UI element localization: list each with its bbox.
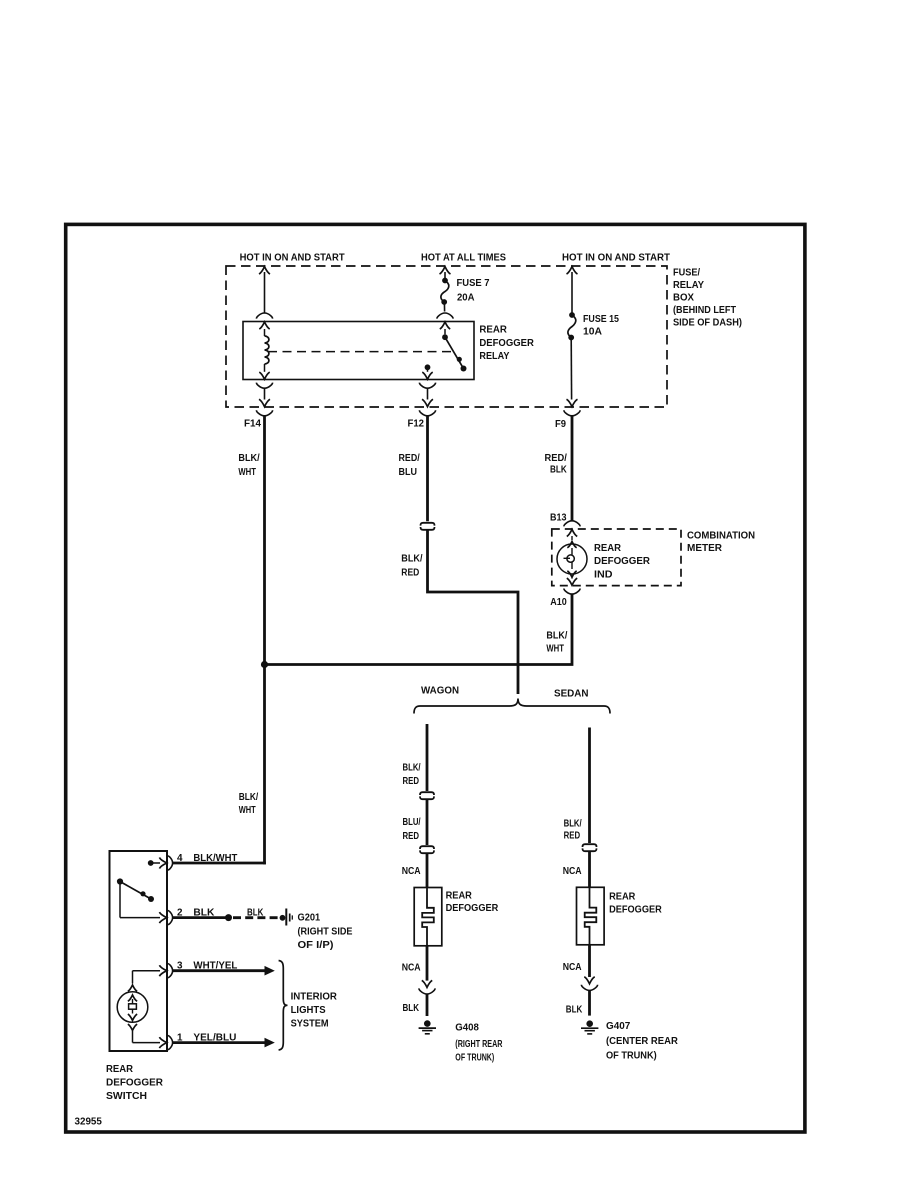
label G408 (RIGHT REAR OF TRUNK)	[455, 1023, 503, 1064]
relay control dashed link	[268, 351, 452, 353]
svg-text:BLK/: BLK/	[546, 630, 567, 641]
wire WHT/YEL pin 3	[173, 966, 275, 976]
svg-text:OF I/P): OF I/P)	[298, 940, 334, 951]
svg-text:(RIGHT REAR: (RIGHT REAR	[455, 1039, 503, 1050]
ground G407	[586, 1020, 593, 1027]
svg-text:INTERIOR: INTERIOR	[291, 991, 338, 1002]
svg-text:(RIGHT SIDE: (RIGHT SIDE	[298, 926, 353, 937]
wire: relay coil pin to F14	[259, 388, 270, 407]
ground connection G201	[280, 909, 293, 926]
connector bowl below relay output pin	[419, 383, 435, 389]
svg-text:20A: 20A	[457, 293, 475, 304]
switch pin 4	[151, 856, 173, 870]
svg-text:SIDE OF DASH): SIDE OF DASH)	[673, 317, 742, 328]
dashed wire BLK to G201	[233, 916, 279, 919]
svg-text:REAR: REAR	[609, 891, 636, 902]
switch contact arm	[117, 860, 154, 918]
wire wagon BLK/RED	[426, 724, 429, 791]
svg-text:REAR: REAR	[446, 890, 473, 901]
svg-text:COMBINATION: COMBINATION	[687, 530, 755, 541]
connector bowl above relay coil pin	[256, 313, 272, 319]
label FUSE 15 10A	[583, 314, 619, 338]
svg-text:BLK/: BLK/	[564, 819, 582, 830]
svg-text:WHT: WHT	[546, 644, 564, 655]
connector F14	[256, 410, 272, 416]
wire RED/BLK from F9	[571, 416, 574, 521]
svg-text:RED: RED	[564, 830, 581, 841]
relay switch contact	[440, 322, 467, 372]
inline connector C4 (sedan)	[583, 844, 597, 847]
label RED/BLU	[399, 453, 420, 478]
label BLK/RED (feed to brace)	[401, 553, 422, 578]
svg-text:F12: F12	[408, 419, 425, 430]
svg-text:BLK/: BLK/	[238, 453, 259, 464]
svg-text:NCA: NCA	[402, 963, 421, 974]
svg-text:BLK/: BLK/	[403, 763, 421, 774]
svg-text:FUSE/: FUSE/	[673, 268, 700, 279]
label REAR DEFOGGER (wagon)	[446, 890, 499, 914]
svg-text:REAR: REAR	[594, 543, 622, 554]
label G201 (RIGHT SIDE OF I/P)	[298, 912, 353, 951]
svg-text:RED: RED	[403, 831, 420, 842]
label REAR DEFOGGER IND	[594, 543, 651, 580]
svg-text:NCA: NCA	[402, 866, 421, 877]
wire BLK/WHT from A10 to junction	[265, 594, 573, 664]
label RED/BLK	[545, 453, 568, 476]
label COMBINATION METER	[687, 530, 755, 554]
ground G408	[424, 1020, 431, 1027]
label FUSE/RELAY BOX (BEHIND LEFT SIDE OF DASH)	[673, 268, 742, 329]
rear defogger grid (sedan)	[577, 887, 605, 945]
svg-text:(BEHIND LEFT: (BEHIND LEFT	[673, 305, 736, 316]
svg-text:DEFOGGER: DEFOGGER	[106, 1077, 164, 1088]
connector A10 bowl	[564, 589, 580, 595]
svg-text:BLK: BLK	[247, 908, 264, 919]
rear defogger switch box	[110, 851, 168, 1051]
svg-text:SYSTEM: SYSTEM	[291, 1018, 329, 1029]
label REAR DEFOGGER SWITCH	[106, 1064, 164, 1102]
switch pin 3	[133, 964, 173, 978]
label INTERIOR LIGHTS SYSTEM	[291, 991, 338, 1029]
label BLK/WHT (A10 wire)	[546, 630, 567, 654]
svg-text:SWITCH: SWITCH	[106, 1091, 147, 1102]
svg-text:RELAY: RELAY	[673, 280, 704, 291]
junction node (BLK/WHT splice)	[261, 661, 268, 668]
svg-text:BLK/: BLK/	[401, 553, 422, 564]
connector bowl below relay coil pin	[256, 383, 272, 389]
combination meter box (dashed)	[552, 529, 681, 586]
label REAR DEFOGGER (sedan)	[609, 891, 662, 915]
svg-text:FUSE 15: FUSE 15	[583, 314, 619, 325]
svg-text:A10: A10	[550, 597, 567, 608]
svg-text:BLK: BLK	[566, 1004, 583, 1015]
wire RED/BLU from F12	[426, 416, 429, 522]
svg-text:G201: G201	[298, 912, 321, 923]
connector (sedan to ground lead)	[581, 977, 597, 991]
connector (wagon to ground lead)	[419, 980, 435, 994]
relay U1 box	[243, 322, 474, 380]
svg-text:REAR: REAR	[106, 1064, 134, 1075]
relay output pin (to F12)	[422, 364, 432, 379]
svg-text:WHT: WHT	[238, 467, 256, 478]
fuse/relay box (dashed)	[226, 266, 667, 407]
svg-text:RED: RED	[403, 776, 420, 787]
label G407 (CENTER REAR OF TRUNK)	[606, 1021, 679, 1062]
svg-text:FUSE 7: FUSE 7	[457, 278, 490, 289]
switch illumination lamp	[117, 971, 148, 1043]
svg-text:BLK/: BLK/	[239, 792, 259, 803]
label BLK/RED (wagon)	[403, 763, 421, 787]
svg-text:METER: METER	[687, 543, 723, 554]
svg-text:BOX: BOX	[673, 292, 694, 303]
wire: hot-in-on-and-start right feed	[567, 267, 578, 313]
svg-text:RELAY: RELAY	[479, 351, 509, 362]
rear defogger indicator lamp	[557, 529, 587, 585]
svg-text:G408: G408	[455, 1023, 479, 1034]
wire: fuse 7 to relay contact	[443, 302, 445, 312]
wire: relay output to F12	[422, 388, 433, 407]
wire BLK pin 2	[173, 916, 229, 919]
svg-text:DEFOGGER: DEFOGGER	[594, 556, 651, 567]
wire BLK/RED down to wagon/sedan brace	[428, 530, 519, 694]
svg-text:F9: F9	[555, 419, 566, 430]
svg-text:32955: 32955	[75, 1117, 103, 1128]
svg-text:HOT IN ON AND START: HOT IN ON AND START	[240, 252, 345, 263]
svg-text:BLK: BLK	[403, 1003, 420, 1014]
wire BLK/WHT pin 4	[173, 862, 266, 865]
wire YEL/BLU pin 1	[173, 1038, 275, 1048]
brace WAGON/SEDAN	[414, 699, 610, 714]
svg-text:REAR: REAR	[479, 325, 507, 336]
wire sedan BLK/RED	[588, 728, 591, 844]
svg-text:RED: RED	[401, 568, 419, 579]
svg-text:NCA: NCA	[563, 962, 582, 973]
svg-text:WAGON: WAGON	[421, 686, 459, 697]
svg-text:BLU: BLU	[399, 467, 418, 478]
svg-text:IND: IND	[594, 569, 613, 580]
svg-text:NCA: NCA	[563, 866, 582, 877]
label REAR DEFOGGER RELAY	[479, 325, 534, 363]
relay coil	[259, 322, 269, 379]
inline connector C1 (F12 wire)	[421, 523, 435, 526]
svg-text:LIGHTS: LIGHTS	[291, 1005, 326, 1016]
svg-text:OF TRUNK): OF TRUNK)	[606, 1051, 657, 1062]
svg-text:10A: 10A	[583, 327, 602, 338]
inline connector C3 (wagon)	[420, 846, 434, 849]
svg-text:BLK: BLK	[550, 465, 567, 476]
connector B13 bowl	[564, 521, 580, 527]
wire sedan NCA upper	[588, 852, 591, 888]
fuse F7	[442, 278, 448, 284]
connector bowl above relay contact pin	[437, 313, 453, 319]
label BLK/RED (sedan)	[564, 819, 582, 842]
svg-text:HOT IN ON AND START: HOT IN ON AND START	[562, 252, 670, 263]
inline connector C2 (wagon)	[420, 792, 434, 795]
wire: hot-in-on-and-start feed to relay coil	[259, 267, 270, 314]
svg-text:F14: F14	[244, 419, 261, 430]
svg-text:RED/: RED/	[399, 453, 420, 464]
svg-text:BLK: BLK	[193, 908, 215, 919]
label BLK/WHT (switch feed)	[75, 686, 679, 1128]
label BLK/WHT (F14 wire)	[238, 453, 259, 478]
svg-text:B13: B13	[550, 513, 567, 524]
svg-text:WHT: WHT	[239, 805, 256, 816]
wire sedan BLK	[588, 990, 591, 1015]
brace INTERIOR LIGHTS SYSTEM	[279, 961, 288, 1051]
wire: fuse 15 down to F9	[567, 338, 578, 407]
svg-text:(CENTER REAR: (CENTER REAR	[606, 1036, 679, 1047]
connector F9	[564, 410, 580, 416]
wire wagon BLK	[426, 994, 429, 1016]
fuse F15	[569, 312, 575, 318]
svg-text:WHT/YEL: WHT/YEL	[193, 961, 237, 972]
svg-text:BLU/: BLU/	[403, 817, 421, 828]
svg-text:YEL/BLU: YEL/BLU	[193, 1033, 236, 1044]
svg-text:DEFOGGER: DEFOGGER	[479, 338, 534, 349]
wire: hot-at-all-times feed above fuse 7	[440, 267, 451, 279]
rear defogger grid (wagon)	[414, 888, 442, 946]
switch pin 1	[133, 1035, 173, 1049]
connector F12	[419, 410, 435, 416]
switch pin 2	[120, 910, 173, 924]
svg-text:G407: G407	[606, 1021, 631, 1032]
svg-text:HOT AT ALL TIMES: HOT AT ALL TIMES	[421, 252, 506, 263]
splice node (BLK)	[225, 914, 232, 921]
svg-text:BLK/WHT: BLK/WHT	[193, 853, 237, 864]
wire BLK/WHT from F14 down to switch	[263, 416, 266, 865]
svg-text:DEFOGGER: DEFOGGER	[609, 904, 662, 915]
wire sedan NCA lower	[588, 945, 591, 977]
label BLU/RED (wagon)	[403, 817, 421, 842]
label FUSE 7 20A	[457, 278, 490, 304]
svg-text:OF TRUNK): OF TRUNK)	[455, 1053, 494, 1064]
wire wagon NCA upper	[426, 854, 429, 888]
svg-text:DEFOGGER: DEFOGGER	[446, 903, 499, 914]
wire wagon BLU/RED	[426, 800, 429, 845]
svg-text:SEDAN: SEDAN	[554, 689, 589, 700]
svg-text:RED/: RED/	[545, 453, 567, 464]
wire wagon NCA lower	[426, 946, 429, 981]
